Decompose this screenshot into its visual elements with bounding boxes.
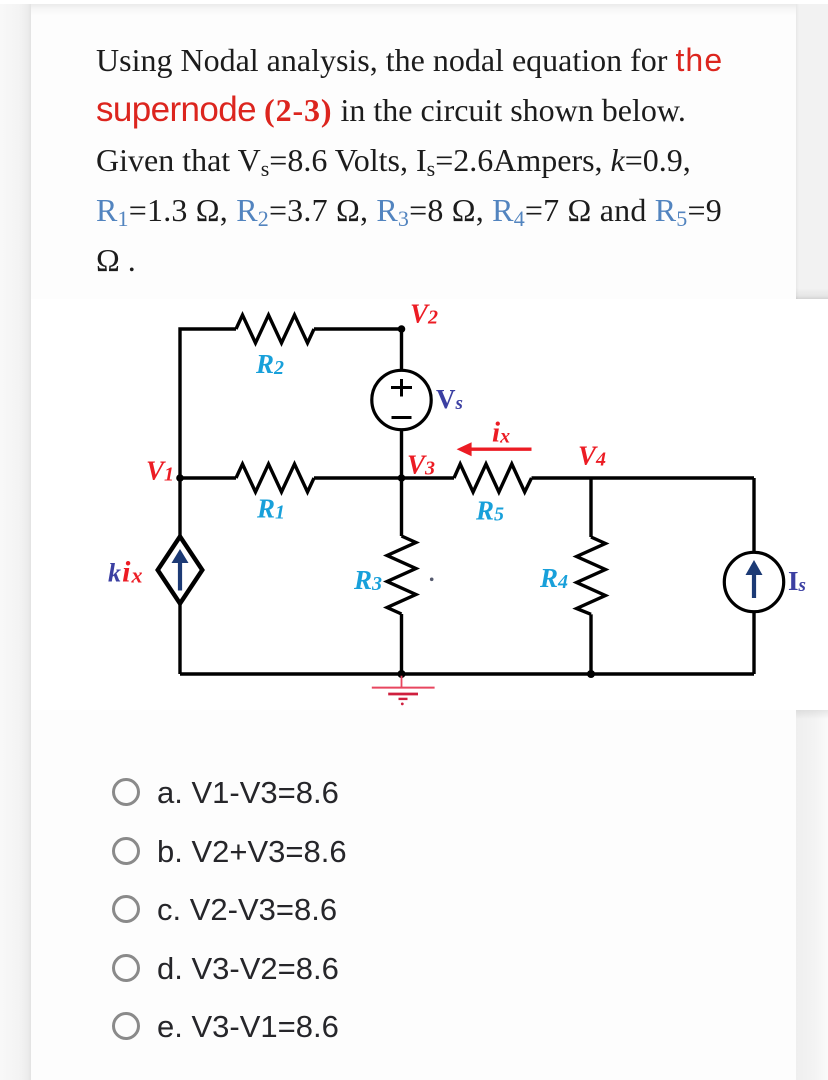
wire Vs to node V3 xyxy=(400,430,403,479)
svg-text:R2: R2 xyxy=(255,349,284,379)
junction ground node xyxy=(398,670,406,678)
right grey gutter bottom xyxy=(796,710,828,1080)
svg-text:V2: V2 xyxy=(410,299,438,329)
wire Is source to bottom rail xyxy=(752,612,755,674)
junction node V3 xyxy=(398,474,406,482)
wire R3 bottom to ground node xyxy=(400,614,403,674)
svg-text:V3: V3 xyxy=(407,450,435,480)
wire V2 down to Vs source xyxy=(400,329,403,371)
svg-text:Vs: Vs xyxy=(436,384,463,414)
wire mid V1 to R1 xyxy=(180,476,236,479)
Vs minus sign xyxy=(392,416,412,419)
left grey gutter xyxy=(0,0,31,1080)
wire R5 to V4 to right corner xyxy=(532,476,755,479)
resistor R3 xyxy=(387,536,416,614)
kix arrow xyxy=(172,549,189,591)
Vs plus sign xyxy=(391,379,412,397)
answer options xyxy=(112,778,140,806)
stray dot xyxy=(430,578,434,582)
junction R4 bottom xyxy=(587,670,595,678)
wire top wire right lead to node V2 xyxy=(314,327,402,330)
ix current arrow xyxy=(469,448,532,451)
Is arrow xyxy=(746,560,763,598)
svg-text:R1: R1 xyxy=(256,494,285,524)
svg-text:ix: ix xyxy=(492,417,510,449)
resistor R1 xyxy=(236,464,314,492)
junction node V2 xyxy=(398,325,406,333)
ground xyxy=(372,676,435,706)
svg-text:V4: V4 xyxy=(578,441,606,471)
wire top-left loop: left vertical + top wire left lead xyxy=(180,329,236,478)
resistor R5 xyxy=(454,464,532,492)
svg-text:R4: R4 xyxy=(539,563,568,593)
wire V3 down to R3 xyxy=(400,478,403,536)
resistor R2 xyxy=(236,315,314,343)
voltage source Vs circle xyxy=(372,370,431,429)
top hairline band xyxy=(31,4,796,15)
svg-text:V1: V1 xyxy=(146,456,174,486)
wire R1 to V3 to R5 xyxy=(314,476,454,479)
svg-text:Is: Is xyxy=(788,566,806,596)
wire R4 bottom to bottom rail xyxy=(589,614,592,674)
wire bottom rail xyxy=(180,672,754,675)
wire dependent source to bottom rail xyxy=(178,604,181,675)
svg-text:R5: R5 xyxy=(475,496,504,526)
current source Is circle xyxy=(724,552,783,611)
wire right branch down to Is source xyxy=(752,478,755,552)
question text xyxy=(96,42,723,78)
right grey gutter top xyxy=(796,0,828,299)
svg-text:kix: kix xyxy=(108,556,144,589)
wire V1 down to dependent source xyxy=(178,478,181,537)
junction node V1 xyxy=(176,474,184,482)
wire V4 down to R4 xyxy=(589,478,592,537)
svg-text:R3: R3 xyxy=(353,565,382,595)
white circuit image area xyxy=(31,299,828,710)
dependent source kix diamond xyxy=(158,537,203,604)
resistor R4 xyxy=(577,537,606,614)
